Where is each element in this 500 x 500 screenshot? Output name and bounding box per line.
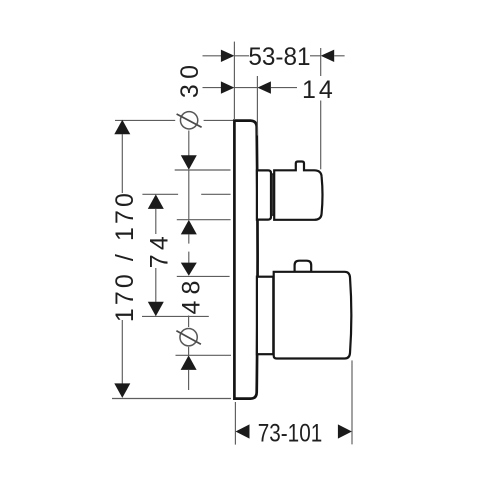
top handle stem sleeve xyxy=(257,170,271,219)
svg-text:14: 14 xyxy=(302,76,336,104)
svg-text:170 / 170: 170 / 170 xyxy=(111,193,139,322)
dia 30 top arrow (down) xyxy=(181,155,197,170)
ext line handle face (right of 53-81) lower xyxy=(320,101,322,170)
dim 53-81 left tail xyxy=(203,55,222,57)
dia 30 upper stem xyxy=(188,131,190,156)
bottom handle stem sleeve xyxy=(257,277,273,355)
dim 14 line xyxy=(234,87,257,89)
dia 30 span line xyxy=(188,170,190,220)
ext line 73-101 right xyxy=(351,360,353,444)
dia 30 circle xyxy=(180,112,197,129)
ext line 73-101 left xyxy=(234,402,236,445)
dim 170/170 line upper segment xyxy=(121,134,123,193)
dim 74 line lower segment xyxy=(155,268,157,302)
dim 74 top arrow xyxy=(148,194,164,209)
dia 30 lower stem xyxy=(188,234,190,243)
dim 170/170 line lower segment xyxy=(121,320,123,384)
top handle ring xyxy=(272,174,274,215)
dim 170/170 top leader right part xyxy=(204,119,233,121)
dia 30 bottom arrow (up) xyxy=(181,220,197,235)
ext line wall plane (left of 53-81 and 14) xyxy=(233,42,235,120)
dim 74 top leader right xyxy=(201,193,230,195)
bottom handle body xyxy=(274,272,352,359)
bottom sleeve top edge leader xyxy=(177,275,230,277)
dim 74 bottom leader xyxy=(142,315,209,317)
dia 48 lower stem above line xyxy=(188,347,190,355)
dim 53-81 right arrow xyxy=(321,50,335,62)
bottom sleeve bottom edge leader xyxy=(176,354,232,356)
dim 14 left arrow xyxy=(221,81,235,93)
top handle bottom edge leader xyxy=(177,219,231,221)
dia 48 mid stem xyxy=(188,316,190,328)
plate (escutcheon, side view) xyxy=(234,121,257,399)
dim 170/170 top leader xyxy=(115,119,175,121)
dia 48 circle xyxy=(180,329,197,346)
ext line plate front (right of 14) xyxy=(256,76,258,136)
dia 48 bottom stem xyxy=(188,370,190,390)
connector stem xyxy=(188,252,190,263)
svg-text:53-81: 53-81 xyxy=(248,43,310,71)
top handle top edge leader xyxy=(175,169,231,171)
dim 74 line upper segment xyxy=(155,209,157,234)
dia 48 top arrow (down) xyxy=(181,263,197,276)
dim 74 top leader left xyxy=(142,193,178,195)
svg-text:73-101: 73-101 xyxy=(258,420,323,448)
dim 14 right arrow xyxy=(257,81,271,93)
ext line handle face (right of 53-81) upper xyxy=(320,48,322,76)
dim 53-81 line left segment xyxy=(234,55,249,57)
dia 48 slash xyxy=(176,331,201,345)
dim 73-101 right arrow xyxy=(338,424,352,438)
dim 14 left tail xyxy=(203,87,222,89)
dim 170/170 bottom leader xyxy=(112,398,231,400)
dim 170/170 bottom arrow xyxy=(114,383,130,398)
dim 73-101 left arrow xyxy=(236,424,250,438)
dia 30 slash xyxy=(177,114,202,127)
dim 53-81 left arrow xyxy=(221,50,235,62)
bottom handle button xyxy=(295,261,312,272)
dim 53-81 line right segment xyxy=(310,55,321,57)
dim 53-81 right tail xyxy=(334,55,344,57)
top handle body with tab xyxy=(274,162,322,220)
dim 74 bottom arrow xyxy=(148,302,164,317)
dim 170/170 top arrow xyxy=(114,120,130,135)
dim 14 right tail xyxy=(271,87,297,89)
dia 48 bottom arrow (up) xyxy=(181,355,197,370)
